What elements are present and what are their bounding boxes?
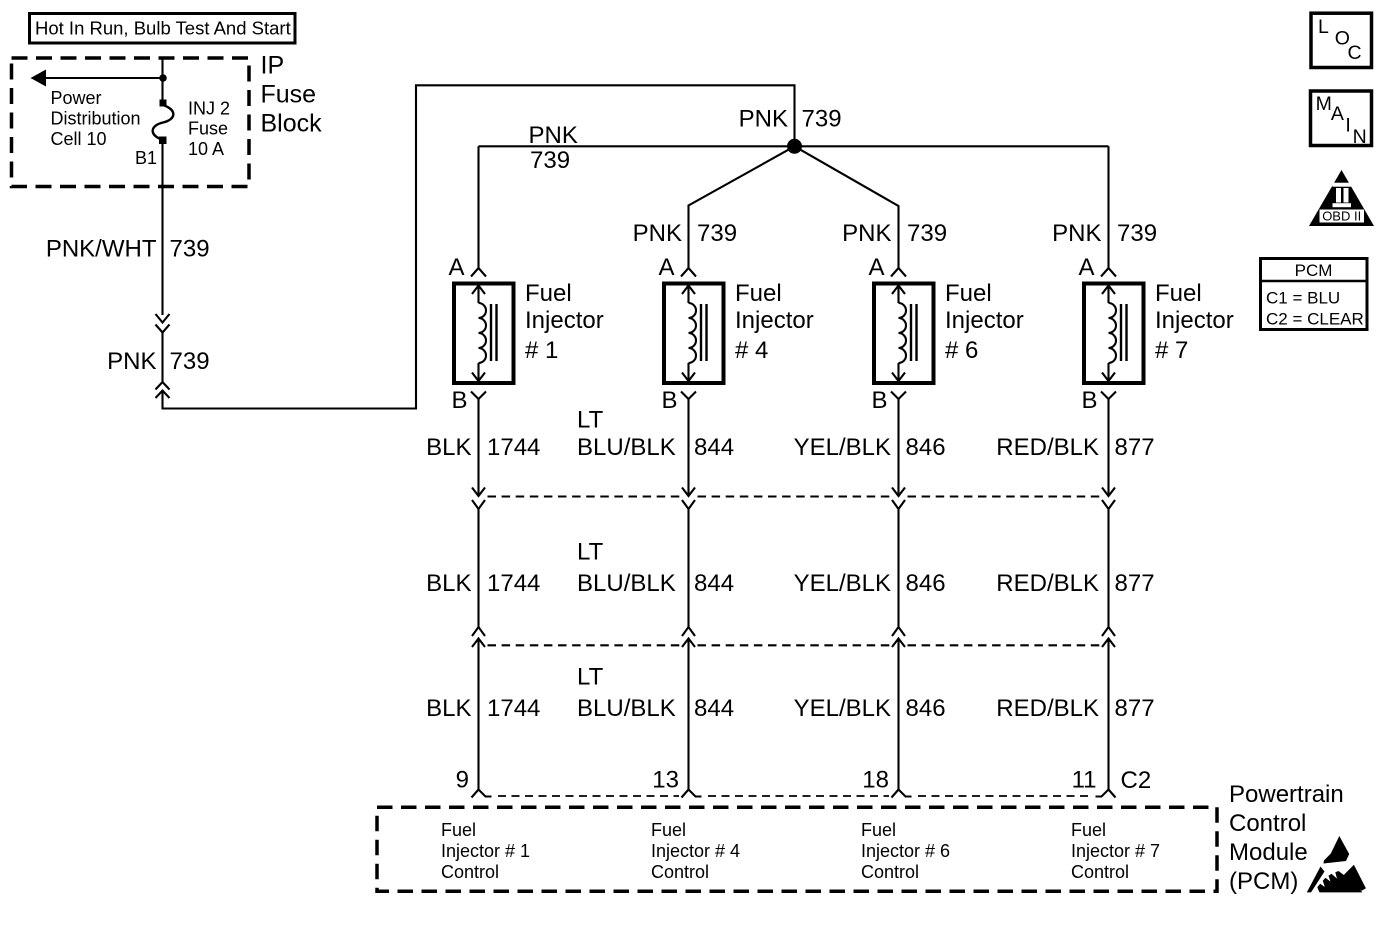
- label Fuel Injector # 7: [1155, 280, 1234, 364]
- connector halves at line C1, column 3: [892, 488, 905, 628]
- svg-text:C2 = CLEAR: C2 = CLEAR: [1266, 310, 1364, 329]
- label Fuel Injector # 7 Control: [1071, 820, 1160, 882]
- svg-text:BLU/BLK: BLU/BLK: [577, 570, 676, 597]
- svg-text:9: 9: [456, 767, 469, 794]
- svg-text:Control: Control: [651, 862, 709, 882]
- svg-text:RED/BLK: RED/BLK: [996, 695, 1099, 722]
- svg-text:PNK: PNK: [633, 220, 682, 247]
- wire PNK/WHT 739 from fuse B1 down: [161, 144, 163, 316]
- svg-text:13: 13: [652, 767, 679, 794]
- svg-text:739: 739: [697, 220, 737, 247]
- svg-text:Fuel: Fuel: [651, 820, 686, 840]
- label PNK 739 (injector 1 feed): [529, 122, 578, 174]
- svg-text:BLU/BLK: BLU/BLK: [577, 434, 676, 461]
- svg-text:Injector # 1: Injector # 1: [441, 841, 530, 861]
- svg-text:PCM: PCM: [1295, 261, 1333, 280]
- svg-text:PNK: PNK: [107, 348, 156, 375]
- title box "Hot In Run, Bulb Test And Start": [30, 14, 296, 44]
- svg-text:# 7: # 7: [1155, 337, 1188, 364]
- svg-text:# 1: # 1: [525, 337, 558, 364]
- label PNK/WHT 739: [46, 236, 210, 263]
- svg-text:YEL/BLK: YEL/BLK: [794, 695, 891, 722]
- svg-text:Power: Power: [51, 88, 102, 108]
- svg-text:A: A: [868, 254, 884, 281]
- svg-text:846: 846: [906, 434, 946, 461]
- svg-text:739: 739: [1117, 220, 1157, 247]
- pin A connector, fuel injector 1: [448, 254, 486, 281]
- svg-text:M: M: [1316, 93, 1332, 115]
- svg-text:A: A: [1331, 103, 1344, 125]
- PCM pin 9: [456, 767, 492, 798]
- pin B connector, fuel injector 6: [871, 387, 906, 414]
- label LT BLU/BLK 844 (row 2): [577, 539, 734, 598]
- label Fuel Injector # 6: [945, 280, 1024, 364]
- svg-text:C: C: [1348, 42, 1362, 64]
- PCM pin 13: [652, 767, 701, 798]
- wire RED/BLK 877 from injector 7 pin B: [1107, 399, 1109, 496]
- label RED/BLK 877 (row 1): [996, 434, 1154, 461]
- svg-text:YEL/BLK: YEL/BLK: [794, 570, 891, 597]
- label RED/BLK 877 (row 3): [996, 695, 1154, 722]
- label BLK 1744 (row 2): [426, 570, 540, 597]
- wire to injector 7 pin A: [1107, 146, 1109, 268]
- label YEL/BLK 846 (row 1): [794, 434, 946, 461]
- MAIN reference box: [1311, 91, 1372, 148]
- svg-text:L: L: [1318, 16, 1329, 38]
- PCM connector face line (fine dashed): [498, 795, 1089, 797]
- svg-text:Cell 10: Cell 10: [51, 129, 107, 149]
- svg-text:# 4: # 4: [735, 337, 768, 364]
- svg-text:B1: B1: [135, 148, 157, 168]
- svg-text:Injector: Injector: [1155, 307, 1234, 334]
- svg-text:739: 739: [170, 348, 210, 375]
- fuel injector 4 (solenoid): [664, 284, 724, 384]
- IP Fuse Block dashed box: [12, 58, 250, 187]
- LOC reference box: [1311, 13, 1372, 67]
- label PNK 739 (injector 4 feed): [633, 220, 737, 247]
- svg-text:Control: Control: [1071, 862, 1129, 882]
- connector halves at line C1, column 2: [682, 488, 695, 628]
- svg-text:Injector: Injector: [735, 307, 814, 334]
- svg-text:Injector # 7: Injector # 7: [1071, 841, 1160, 861]
- svg-text:844: 844: [694, 570, 734, 597]
- label RED/BLK 877 (row 2): [996, 570, 1154, 597]
- svg-text:Control: Control: [441, 862, 499, 882]
- svg-text:Powertrain: Powertrain: [1229, 781, 1344, 808]
- wire from fuse block top to fuse: [161, 58, 163, 100]
- connector halves at line C2, column 2: [682, 627, 695, 790]
- svg-text:Injector: Injector: [525, 307, 604, 334]
- label Fuel Injector # 4: [735, 280, 814, 364]
- svg-text:N: N: [1353, 126, 1367, 148]
- splice node S (PNK 739 distribution): [787, 139, 802, 154]
- svg-text:IP: IP: [261, 52, 285, 80]
- label LT BLU/BLK 844 (row 3): [577, 664, 734, 723]
- svg-text:Fuel: Fuel: [735, 280, 782, 307]
- label YEL/BLK 846 (row 3): [794, 695, 946, 722]
- svg-text:Injector: Injector: [945, 307, 1024, 334]
- svg-text:RED/BLK: RED/BLK: [996, 434, 1099, 461]
- svg-text:Injector # 6: Injector # 6: [861, 841, 950, 861]
- svg-text:Control: Control: [1229, 810, 1306, 837]
- inline connector pair (male down / female) on left wire: [156, 314, 170, 333]
- connector halves at line C1, column 1: [472, 488, 485, 628]
- inline harness connector line C1 (dashed): [488, 495, 1100, 497]
- svg-text:C2: C2: [1121, 767, 1152, 794]
- label YEL/BLK 846 (row 2): [794, 570, 946, 597]
- svg-text:Fuel: Fuel: [525, 280, 572, 307]
- pin A connector, fuel injector 7: [1078, 254, 1116, 281]
- svg-text:LT: LT: [577, 539, 604, 566]
- label INJ 2 Fuse 10 A: [188, 98, 230, 159]
- wire to injector 1 pin A: [477, 146, 479, 268]
- svg-text:B: B: [451, 387, 467, 414]
- svg-text:INJ 2: INJ 2: [188, 98, 230, 118]
- svg-text:1744: 1744: [487, 434, 540, 461]
- svg-text:739: 739: [530, 147, 570, 174]
- svg-text:10 A: 10 A: [188, 139, 224, 159]
- wire splice to injector 4 (diagonal): [689, 146, 795, 268]
- svg-text:# 6: # 6: [945, 337, 978, 364]
- svg-text:11: 11: [1072, 767, 1097, 794]
- svg-text:Fuse: Fuse: [188, 119, 228, 139]
- svg-text:BLK: BLK: [426, 570, 471, 597]
- label PNK 739 (injector 6 feed): [842, 220, 947, 247]
- svg-text:PNK: PNK: [842, 220, 891, 247]
- bus wire from splice across injector columns: [479, 145, 1109, 147]
- label Fuel Injector # 1: [525, 280, 604, 364]
- fuse INJ 2 10A: [153, 100, 174, 145]
- svg-text:Fuse: Fuse: [261, 81, 317, 109]
- svg-text:739: 739: [907, 220, 947, 247]
- svg-text:Control: Control: [861, 862, 919, 882]
- connector halves at line C2, column 1: [472, 627, 485, 790]
- label BLK 1744 (row 1): [426, 434, 540, 461]
- arrow to Power Distribution Cell 10: [31, 70, 164, 87]
- svg-text:A: A: [658, 254, 674, 281]
- PCM connector legend box: [1261, 259, 1368, 330]
- label BLK 1744 (row 3): [426, 695, 540, 722]
- inline connector pair (female up / male up) on left wire: [156, 382, 170, 398]
- svg-text:739: 739: [170, 236, 210, 263]
- svg-text:Fuel: Fuel: [861, 820, 896, 840]
- svg-text:B: B: [661, 387, 677, 414]
- svg-text:846: 846: [906, 695, 946, 722]
- svg-text:Injector # 4: Injector # 4: [651, 841, 740, 861]
- pin A connector, fuel injector 6: [868, 254, 906, 281]
- svg-text:844: 844: [694, 695, 734, 722]
- OBD II symbol (black triangle): [1309, 170, 1374, 226]
- svg-text:BLU/BLK: BLU/BLK: [577, 695, 676, 722]
- svg-text:BLK: BLK: [426, 695, 471, 722]
- wire PNK 739 on left branch: [161, 333, 163, 383]
- label Power Distribution Cell 10: [51, 88, 141, 149]
- pin B connector, fuel injector 4: [661, 387, 696, 414]
- label Fuel Injector # 1 Control: [441, 820, 530, 882]
- svg-text:739: 739: [802, 106, 842, 133]
- PCM pin 11: [1072, 767, 1116, 798]
- svg-text:OBD II: OBD II: [1322, 209, 1361, 224]
- svg-text:PNK: PNK: [529, 122, 578, 149]
- svg-text:877: 877: [1115, 695, 1155, 722]
- connector halves at line C2, column 3: [892, 627, 905, 790]
- svg-text:PNK: PNK: [1052, 220, 1101, 247]
- wire YEL/BLK 846 from injector 6 pin B: [897, 399, 899, 496]
- svg-text:18: 18: [862, 767, 889, 794]
- svg-text:Block: Block: [261, 110, 323, 138]
- svg-text:Module: Module: [1229, 839, 1308, 866]
- svg-text:1744: 1744: [487, 695, 540, 722]
- label LT BLU/BLK 844 (row 1): [577, 407, 734, 462]
- label PNK 739 (injector 7 feed): [1052, 220, 1157, 247]
- PCM pin 18: [862, 767, 911, 798]
- svg-text:877: 877: [1115, 570, 1155, 597]
- wire LT BLU/BLK 844 from injector 4 pin B: [687, 399, 689, 496]
- Powertrain Control Module dashed box: [377, 807, 1217, 891]
- svg-text:LT: LT: [577, 664, 604, 691]
- svg-text:877: 877: [1115, 434, 1155, 461]
- svg-text:1744: 1744: [487, 570, 540, 597]
- junction dot at fuse feed: [159, 74, 167, 82]
- svg-text:B: B: [1081, 387, 1097, 414]
- svg-text:PNK/WHT: PNK/WHT: [46, 236, 157, 263]
- ESD warning symbol (triangle with hand): [1307, 836, 1366, 892]
- inline harness connector line C2 (dashed): [488, 644, 1100, 646]
- svg-text:846: 846: [906, 570, 946, 597]
- label IP Fuse Block: [261, 52, 323, 138]
- svg-text:Fuel: Fuel: [1155, 280, 1202, 307]
- svg-text:844: 844: [694, 434, 734, 461]
- svg-text:A: A: [1078, 254, 1094, 281]
- pin A connector, fuel injector 4: [658, 254, 696, 281]
- svg-text:LT: LT: [577, 407, 604, 434]
- connector halves at line C2, column 4: [1102, 627, 1115, 790]
- svg-text:Fuel: Fuel: [1071, 820, 1106, 840]
- svg-text:Fuel: Fuel: [441, 820, 476, 840]
- svg-text:Distribution: Distribution: [51, 109, 141, 129]
- wire run from left branch to splice node: down, right, up, right, down: [163, 85, 795, 408]
- svg-text:PNK: PNK: [739, 106, 788, 133]
- label PNK 739 (left branch): [107, 348, 209, 375]
- label Fuel Injector # 4 Control: [651, 820, 740, 882]
- fuel injector 1 (solenoid): [454, 284, 514, 384]
- svg-text:Hot In Run, Bulb Test And Star: Hot In Run, Bulb Test And Start: [35, 18, 291, 39]
- pin B connector, fuel injector 7: [1081, 387, 1116, 414]
- wire splice to injector 6 (diagonal): [795, 146, 899, 268]
- svg-text:I: I: [1345, 115, 1350, 137]
- svg-text:BLK: BLK: [426, 434, 471, 461]
- label PNK 739 at splice: [739, 106, 842, 133]
- pin B connector, fuel injector 1: [451, 387, 486, 414]
- svg-text:Fuel: Fuel: [945, 280, 992, 307]
- label Fuel Injector # 6 Control: [861, 820, 950, 882]
- svg-text:C1 = BLU: C1 = BLU: [1266, 289, 1340, 308]
- svg-text:RED/BLK: RED/BLK: [996, 570, 1099, 597]
- connector halves at line C1, column 4: [1102, 488, 1115, 628]
- svg-text:(PCM): (PCM): [1229, 868, 1298, 895]
- svg-text:YEL/BLK: YEL/BLK: [794, 434, 891, 461]
- wire BLK 1744 from injector 1 pin B: [477, 399, 479, 496]
- svg-text:A: A: [448, 254, 464, 281]
- fuel injector 6 (solenoid): [874, 284, 934, 384]
- fuel injector 7 (solenoid): [1084, 284, 1144, 384]
- svg-text:B: B: [871, 387, 887, 414]
- label Powertrain Control Module (PCM): [1229, 781, 1344, 895]
